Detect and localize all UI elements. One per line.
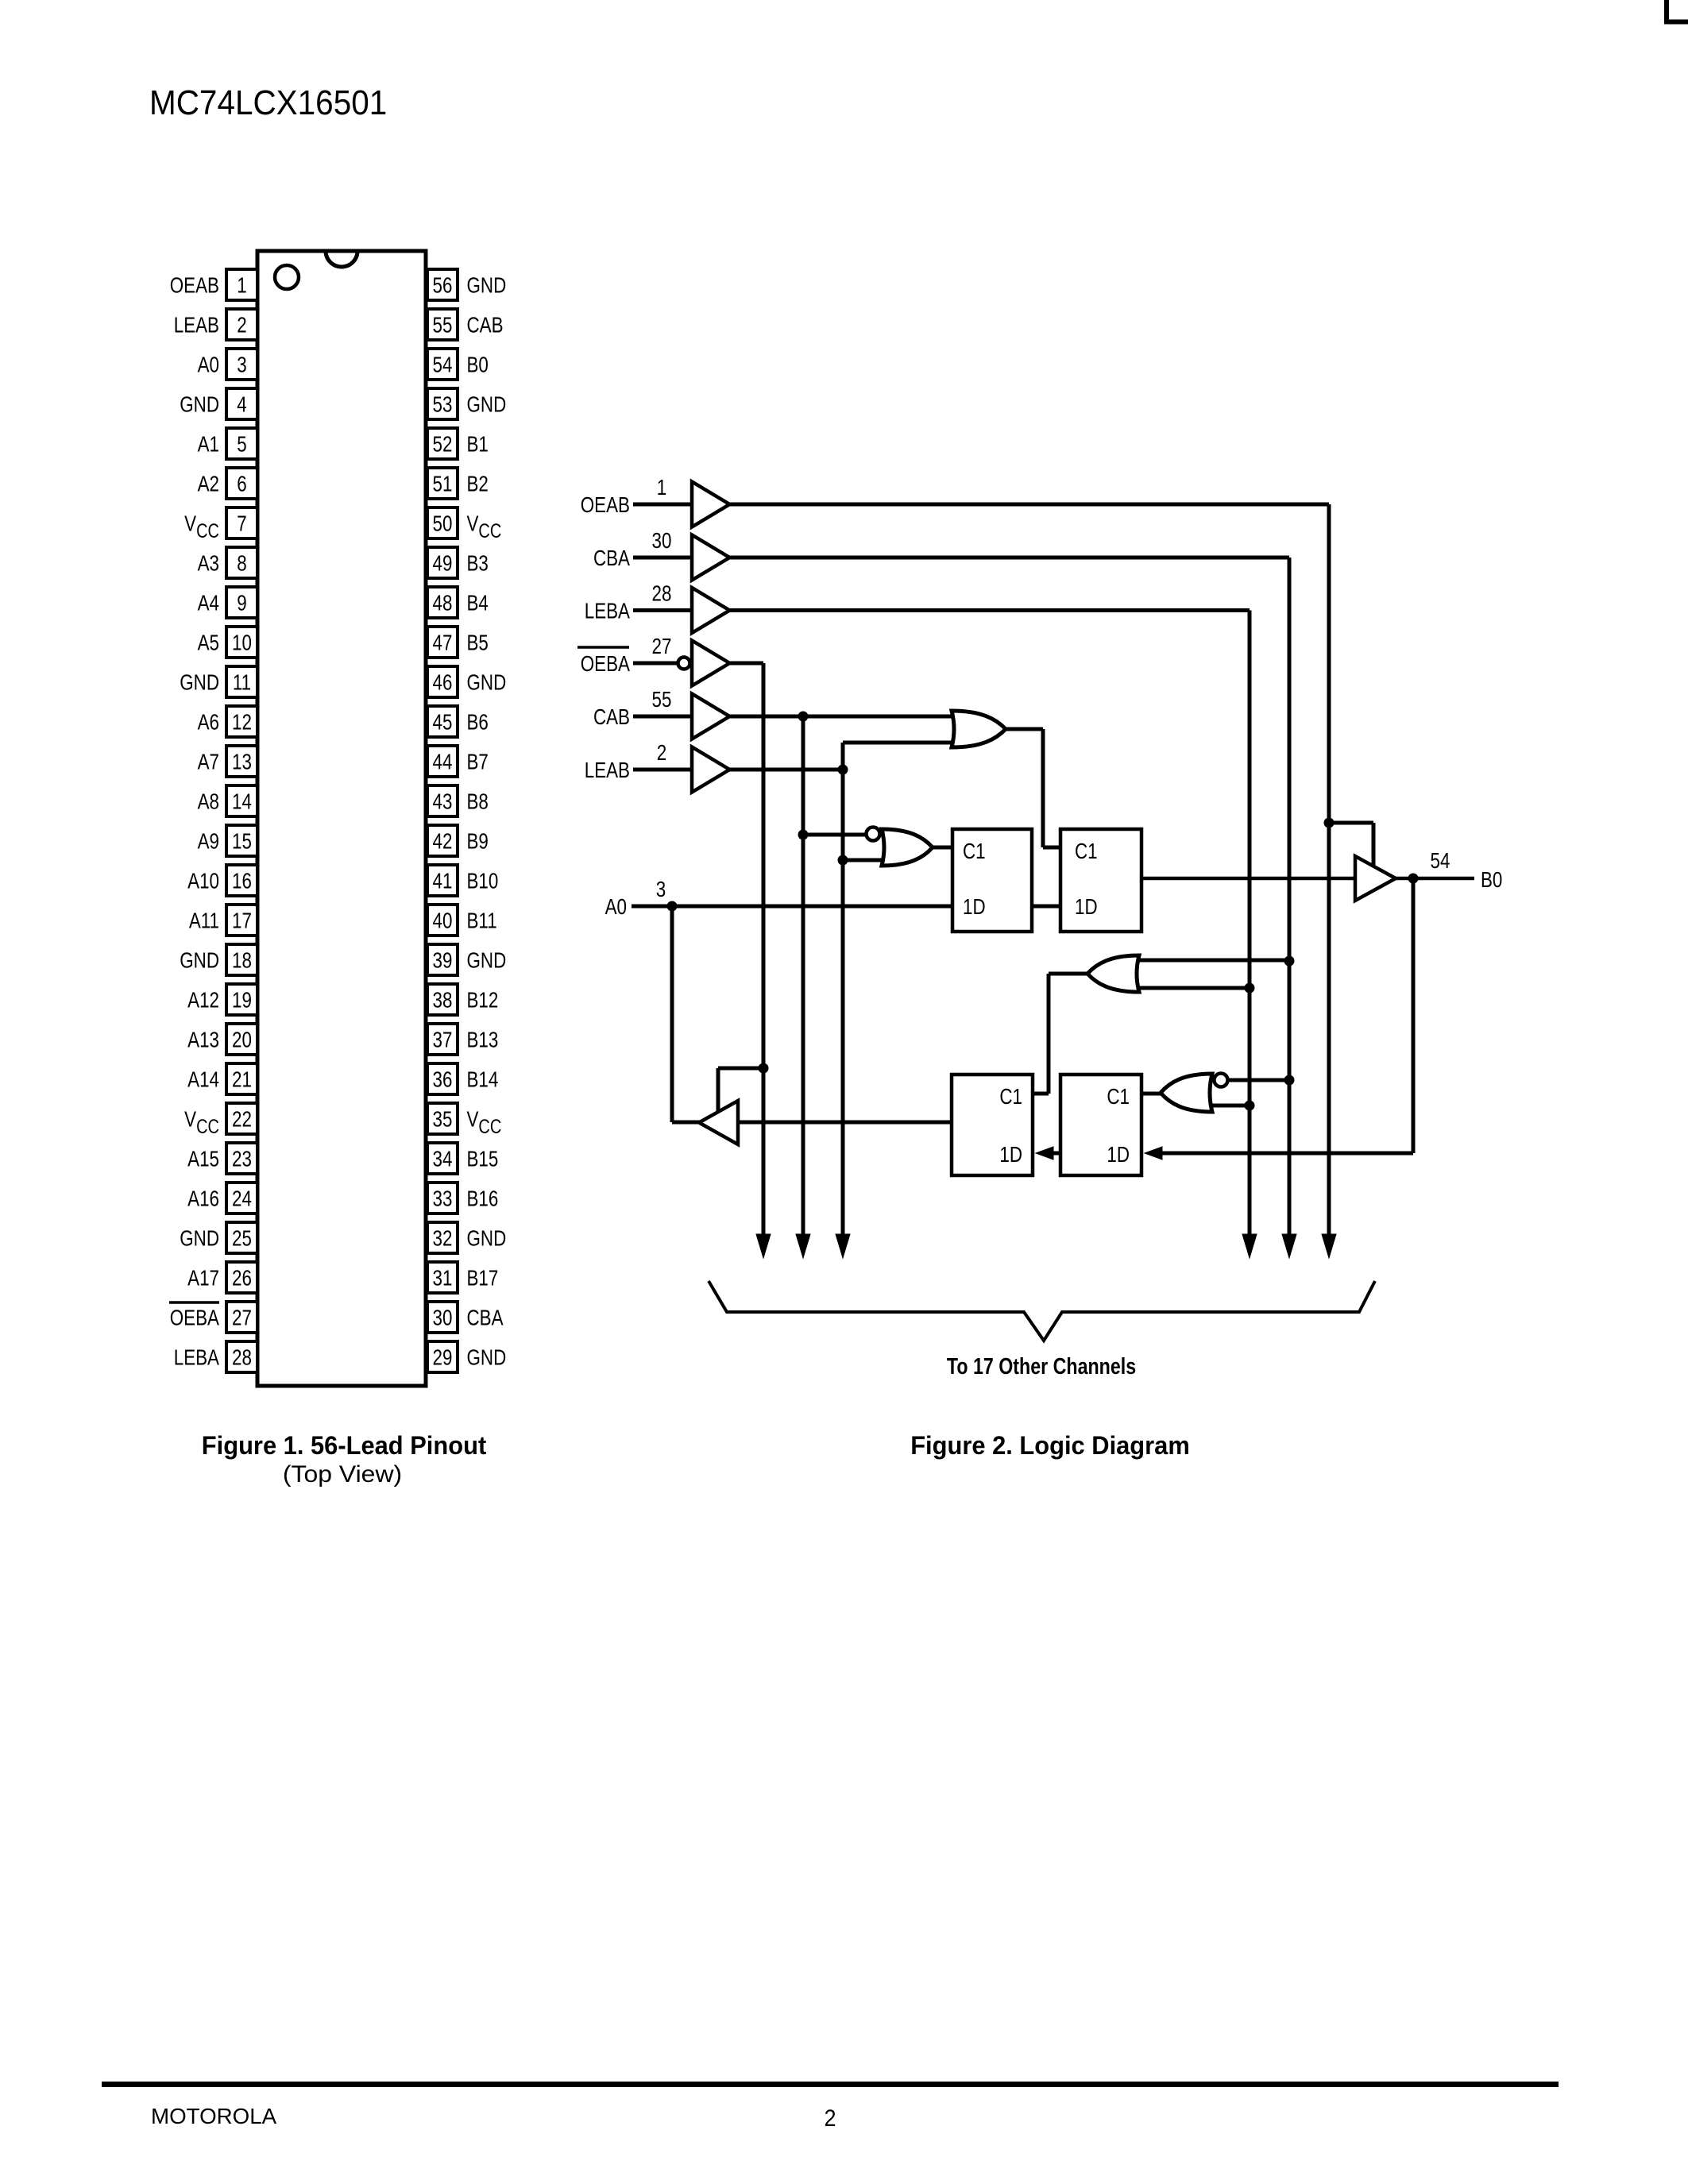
svg-text:B17: B17 [467, 1266, 499, 1291]
pin 34 label B15 [467, 1147, 499, 1171]
pin 23 number [232, 1147, 252, 1171]
pin 42 label B9 [467, 829, 489, 854]
pin number 28 [652, 581, 672, 606]
svg-text:LEAB: LEAB [585, 758, 630, 783]
pin 39 box [427, 944, 458, 975]
pin 21 label A14 [187, 1067, 219, 1092]
pin 30 box [427, 1302, 458, 1333]
pin 52 number [433, 432, 453, 457]
svg-text:38: 38 [433, 988, 453, 1013]
pin 8 box [226, 547, 257, 578]
pin 32 number [433, 1226, 453, 1251]
svg-text:B0: B0 [1481, 868, 1502, 893]
svg-text:8: 8 [237, 551, 246, 576]
junction LEAB output [838, 765, 848, 775]
footer MOTOROLA [151, 2104, 277, 2128]
buffer LEAB [692, 747, 730, 793]
svg-text:32: 32 [433, 1226, 453, 1251]
pin 56 box [427, 269, 458, 300]
pin 47 number [433, 631, 453, 655]
pin 15 label A9 [198, 829, 219, 854]
svg-text:30: 30 [433, 1306, 453, 1330]
pin 32 box [427, 1222, 458, 1253]
svg-text:9: 9 [237, 591, 246, 615]
pin number 2 [657, 741, 666, 766]
wire gate G3 output to latch L4 C1 [1141, 1092, 1161, 1096]
svg-text:21: 21 [232, 1067, 252, 1092]
svg-text:7: 7 [237, 511, 246, 536]
latch L3 C1 label [999, 1085, 1022, 1109]
latch L4 (B to A stage 2) [1060, 1075, 1141, 1175]
pin 39 label GND [467, 948, 507, 973]
svg-text:25: 25 [232, 1226, 252, 1251]
latch L1 1D label [963, 895, 986, 920]
svg-text:2: 2 [657, 741, 666, 766]
svg-text:23: 23 [232, 1147, 252, 1171]
pin 33 label B16 [467, 1187, 499, 1211]
latch L2 C1 label [1075, 839, 1098, 864]
package notch [326, 251, 357, 267]
pin number 30 [652, 529, 672, 554]
svg-text:3: 3 [656, 878, 666, 902]
pin 21 number [232, 1067, 252, 1092]
svg-text:GND: GND [467, 1345, 507, 1370]
pin 38 label B12 [467, 988, 499, 1013]
svg-text:1: 1 [237, 273, 246, 298]
svg-text:36: 36 [433, 1067, 453, 1092]
pin 24 number [232, 1187, 252, 1211]
net label CBA [593, 546, 630, 571]
pin 36 label B14 [467, 1067, 499, 1092]
svg-text:OEAB: OEAB [170, 273, 219, 298]
pin 5 label A1 [198, 432, 219, 457]
svg-text:LEAB: LEAB [174, 313, 219, 338]
svg-text:B0: B0 [467, 353, 489, 377]
svg-text:16: 16 [232, 869, 252, 893]
svg-text:GND: GND [467, 948, 507, 973]
svg-text:A3: A3 [198, 551, 219, 576]
svg-text:1D: 1D [1075, 895, 1098, 920]
pin 9 label A4 [198, 591, 219, 615]
pin 16 box [226, 865, 257, 896]
wire LEBA buffer output [730, 608, 1250, 612]
pin 31 label B17 [467, 1266, 499, 1291]
svg-text:(Top View): (Top View) [283, 1461, 402, 1488]
wire OEAB enable vertical [1327, 504, 1331, 1239]
junction B0 output [1408, 874, 1419, 884]
pin 14 label A8 [198, 789, 219, 814]
svg-text:4: 4 [237, 392, 246, 417]
caption (Top View) [283, 1461, 402, 1488]
pin 53 label GND [467, 392, 507, 417]
pin 7 label VCC [184, 511, 219, 542]
pin 31 number [433, 1266, 453, 1291]
pin 8 number [237, 551, 246, 576]
junction LEAB/XOR [838, 855, 848, 866]
latch L2 1D label [1075, 895, 1098, 920]
pin 14 number [232, 789, 252, 814]
junction LEBA/G2 [1245, 983, 1255, 994]
pin 33 number [433, 1187, 453, 1211]
svg-text:To 17 Other Channels: To 17 Other Channels [947, 1353, 1136, 1379]
arrowhead to other channels x=1011 [796, 1234, 810, 1258]
pin 25 number [232, 1226, 252, 1251]
junction CAB output [798, 712, 809, 722]
svg-text:B12: B12 [467, 988, 499, 1013]
wire LEAB branch to OR gate G1 [843, 741, 971, 745]
pin 22 number [232, 1107, 252, 1132]
buffer OEAB [692, 482, 730, 527]
wire OEBA vertical [762, 663, 766, 1239]
svg-text:GND: GND [180, 670, 219, 695]
pin 38 box [427, 984, 458, 1015]
pin 48 number [433, 591, 453, 615]
svg-text:B7: B7 [467, 750, 489, 774]
wire gate G3 bottom input from LEBA [1211, 1104, 1250, 1108]
pin 45 label B6 [467, 710, 489, 735]
pin 9 box [226, 587, 257, 618]
junction CAB/XOR [798, 830, 809, 840]
pin 44 box [427, 746, 458, 777]
pin 7 number [237, 511, 246, 536]
wire LEAB vertical [841, 743, 845, 1239]
svg-text:51: 51 [433, 472, 453, 496]
junction CBA/G3 [1284, 1075, 1295, 1086]
pin 36 number [433, 1067, 453, 1092]
wire CBA input [633, 556, 692, 560]
svg-text:C1: C1 [999, 1085, 1022, 1109]
svg-text:55: 55 [433, 313, 453, 338]
pin 46 box [427, 666, 458, 697]
pin 54 label B0 [467, 353, 489, 377]
wire CAB vertical [802, 716, 805, 1239]
pin 5 box [226, 428, 257, 459]
pin 42 number [433, 829, 453, 854]
latch L3 1D label [999, 1143, 1022, 1167]
pin 1 number [237, 273, 246, 298]
svg-text:B9: B9 [467, 829, 489, 854]
pin 33 box [427, 1183, 458, 1214]
pin 34 box [427, 1143, 458, 1174]
pin 17 box [226, 905, 257, 936]
wire CAB buffer output [730, 715, 971, 719]
pin 11 number [233, 670, 251, 695]
latch L4 C1 label [1107, 1085, 1130, 1109]
svg-text:B14: B14 [467, 1067, 499, 1092]
inverter bubble on gate G0 top input [867, 828, 880, 841]
pin 48 box [427, 587, 458, 618]
svg-text:48: 48 [433, 591, 453, 615]
svg-text:18: 18 [232, 948, 252, 973]
svg-text:17: 17 [232, 909, 252, 933]
pin 15 box [226, 825, 257, 856]
pin 54 number [433, 353, 453, 377]
svg-text:CAB: CAB [467, 313, 504, 338]
pin 20 label A13 [187, 1028, 219, 1052]
caption Figure 1. 56-Lead Pinout [202, 1430, 487, 1460]
pin 41 number [433, 869, 453, 893]
svg-text:GND: GND [180, 948, 219, 973]
svg-text:24: 24 [232, 1187, 252, 1211]
svg-text:2: 2 [237, 313, 246, 338]
arrowhead to other channels x=1623 [1282, 1234, 1296, 1258]
svg-text:1D: 1D [963, 895, 986, 920]
svg-text:A13: A13 [187, 1028, 219, 1052]
pin 26 box [226, 1262, 257, 1293]
pin 25 label GND [180, 1226, 219, 1251]
pin 37 label B13 [467, 1028, 499, 1052]
svg-text:20: 20 [232, 1028, 252, 1052]
svg-text:MC74LCX16501: MC74LCX16501 [149, 83, 387, 122]
svg-text:37: 37 [433, 1028, 453, 1052]
svg-text:A2: A2 [198, 472, 219, 496]
svg-text:A8: A8 [198, 789, 219, 814]
wire OEAB buffer output to enable column [730, 503, 1330, 507]
pin 50 number [433, 511, 453, 536]
pin number 3 [656, 878, 666, 902]
pin 56 label GND [467, 273, 507, 298]
pin 44 number [433, 750, 453, 774]
pin 7 box [226, 507, 257, 538]
svg-text:49: 49 [433, 551, 453, 576]
svg-text:A15: A15 [187, 1147, 219, 1171]
svg-text:A0: A0 [605, 895, 627, 920]
pin 12 label A6 [198, 710, 219, 735]
pin 50 box [427, 507, 458, 538]
wire A0 to latch 1D [632, 905, 952, 909]
svg-text:C1: C1 [1075, 839, 1098, 864]
pin 18 box [226, 944, 257, 975]
net label LEBA [585, 599, 630, 623]
svg-text:27: 27 [232, 1306, 252, 1330]
pin 28 number [232, 1345, 252, 1370]
pin 42 box [427, 825, 458, 856]
svg-text:CBA: CBA [467, 1306, 504, 1330]
pin 26 label A17 [187, 1266, 219, 1291]
net label CAB [593, 705, 630, 730]
svg-text:B10: B10 [467, 869, 499, 893]
svg-text:15: 15 [232, 829, 252, 854]
svg-text:A12: A12 [187, 988, 219, 1013]
latch L1 (A to B stage 1) [952, 829, 1032, 932]
pin 23 label A15 [187, 1147, 219, 1171]
svg-text:B15: B15 [467, 1147, 499, 1171]
pin 2 number [237, 313, 246, 338]
pin 41 box [427, 865, 458, 896]
svg-text:OEAB: OEAB [581, 493, 630, 518]
pin 35 label VCC [467, 1107, 502, 1137]
pin 35 number [433, 1107, 453, 1132]
pin 21 box [226, 1063, 257, 1094]
wire latch L4 to latch L3 1D [1053, 1152, 1060, 1156]
pin number 55 [652, 688, 672, 712]
pin 48 label B4 [467, 591, 489, 615]
pin 27 box [226, 1302, 257, 1333]
svg-text:50: 50 [433, 511, 453, 536]
pin 52 box [427, 428, 458, 459]
wire CBA vertical [1288, 558, 1292, 1239]
wire LEAB input [633, 768, 692, 772]
latch L2 (A to B stage 2) [1060, 829, 1141, 932]
pin 53 box [427, 388, 458, 419]
svg-text:29: 29 [433, 1345, 453, 1370]
svg-text:14: 14 [232, 789, 252, 814]
latch L3 (B to A stage 1) [952, 1075, 1033, 1175]
pin 45 number [433, 710, 453, 735]
svg-text:34: 34 [433, 1147, 453, 1171]
svg-text:Figure 1. 56-Lead Pinout: Figure 1. 56-Lead Pinout [202, 1430, 487, 1460]
svg-text:B2: B2 [467, 472, 489, 496]
pin 29 number [433, 1345, 453, 1370]
svg-text:41: 41 [433, 869, 453, 893]
pin 1 box [226, 269, 257, 300]
svg-text:44: 44 [433, 750, 453, 774]
pin 17 label A11 [189, 909, 219, 933]
svg-text:53: 53 [433, 392, 453, 417]
pin 37 box [427, 1024, 458, 1055]
pin 31 box [427, 1262, 458, 1293]
pin 25 box [226, 1222, 257, 1253]
pin 30 label CBA [467, 1306, 504, 1330]
label To 17 Other Channels [947, 1353, 1136, 1379]
wire OEAB enable branch to output buffer [1329, 821, 1373, 825]
wire feedback to latch L4 1D [1161, 1152, 1413, 1156]
inverter bubble on OEBA buffer input [678, 658, 690, 669]
svg-text:5: 5 [237, 432, 246, 457]
A-side output buffer (drives A0) [699, 1101, 738, 1144]
svg-text:B13: B13 [467, 1028, 499, 1052]
pin 2 label LEAB [174, 313, 219, 338]
footer rule [102, 2082, 1559, 2087]
junction LEBA/G3 [1245, 1101, 1255, 1111]
pin 4 box [226, 388, 257, 419]
pin 22 box [226, 1103, 257, 1134]
pin 3 number [237, 353, 246, 377]
wire OEBA input [633, 662, 678, 666]
svg-text:31: 31 [433, 1266, 453, 1291]
svg-text:10: 10 [232, 631, 252, 655]
svg-text:27: 27 [652, 635, 672, 659]
svg-text:GND: GND [180, 1226, 219, 1251]
wire latch L2 output to B0 buffer [1141, 877, 1355, 881]
pin 6 box [226, 468, 257, 499]
brace: to 17 other channels [709, 1281, 1375, 1341]
svg-text:A6: A6 [198, 710, 219, 735]
pin 15 number [232, 829, 252, 854]
wire CAB input [633, 715, 692, 719]
wire A0 vertical to B-side output buffer [670, 906, 674, 1122]
pin 10 number [232, 631, 252, 655]
svg-text:B5: B5 [467, 631, 489, 655]
buffer OEBA [692, 641, 730, 686]
svg-text:46: 46 [433, 670, 453, 695]
pin 20 number [232, 1028, 252, 1052]
OEBA overline [577, 646, 629, 649]
pin 29 box [427, 1341, 458, 1372]
pin 43 label B8 [467, 789, 489, 814]
pin number 27 [652, 635, 672, 659]
junction OEAB/enable [1324, 818, 1335, 828]
svg-text:45: 45 [433, 710, 453, 735]
pin 1 label OEAB [170, 273, 219, 298]
pin 38 number [433, 988, 453, 1013]
pin 6 label A2 [198, 472, 219, 496]
pin 4 label GND [180, 392, 219, 417]
wire CAB branch to XOR gate [803, 833, 870, 837]
pin 10 label A5 [198, 631, 219, 655]
svg-text:30: 30 [652, 529, 672, 554]
svg-text:B8: B8 [467, 789, 489, 814]
latch L4 1D label [1107, 1143, 1130, 1167]
svg-text:CBA: CBA [593, 546, 630, 571]
pin 40 number [433, 909, 453, 933]
svg-text:54: 54 [1431, 849, 1450, 874]
pin 14 box [226, 785, 257, 816]
page number 2 [824, 2105, 836, 2132]
pin 18 number [232, 948, 252, 973]
svg-text:C1: C1 [1107, 1085, 1130, 1109]
net label OEAB [581, 493, 630, 518]
OR gate G3 with inverted input (latch L4 clock) [1161, 1074, 1212, 1112]
pin 11 box [226, 666, 257, 697]
svg-text:GND: GND [467, 1226, 507, 1251]
svg-text:40: 40 [433, 909, 453, 933]
pin 41 label B10 [467, 869, 499, 893]
pin 30 number [433, 1306, 453, 1330]
svg-text:B3: B3 [467, 551, 489, 576]
svg-text:Figure 2. Logic Diagram: Figure 2. Logic Diagram [910, 1430, 1190, 1460]
svg-text:3: 3 [237, 353, 246, 377]
svg-text:B1: B1 [467, 432, 489, 457]
svg-text:OEBA: OEBA [581, 652, 630, 677]
pin 28 box [226, 1341, 257, 1372]
OR gate G2 (CBA+LEBA, latch L3 clock) [1087, 955, 1139, 992]
svg-text:42: 42 [433, 829, 453, 854]
pin 29 label GND [467, 1345, 507, 1370]
wire OEBA buffer output [730, 662, 764, 666]
pin 20 box [226, 1024, 257, 1055]
svg-text:26: 26 [232, 1266, 252, 1291]
net label LEAB [585, 758, 630, 783]
svg-text:GND: GND [467, 392, 507, 417]
svg-text:MOTOROLA: MOTOROLA [151, 2104, 277, 2128]
pin 19 number [232, 988, 252, 1013]
arrowhead to other channels x=961 [756, 1234, 771, 1258]
svg-text:52: 52 [433, 432, 453, 457]
pin 22 label VCC [184, 1107, 219, 1137]
junction CBA/G2 [1284, 956, 1295, 967]
pin 13 box [226, 746, 257, 777]
svg-text:LEBA: LEBA [174, 1345, 219, 1370]
svg-text:2: 2 [824, 2105, 836, 2132]
svg-text:LEBA: LEBA [585, 599, 630, 623]
svg-text:54: 54 [433, 353, 453, 377]
page corner mark [1667, 0, 1688, 22]
svg-text:19: 19 [232, 988, 252, 1013]
arrowhead to other channels x=1061 [836, 1234, 850, 1258]
pin 19 box [226, 984, 257, 1015]
pin 45 box [427, 706, 458, 737]
svg-text:1D: 1D [999, 1143, 1022, 1167]
B-side output buffer (drives B0) [1355, 856, 1396, 901]
wire B0 buffer output [1396, 877, 1474, 881]
wire LEAB branch to XOR gate [843, 859, 888, 862]
svg-text:B11: B11 [467, 909, 497, 933]
buffer CBA [692, 535, 730, 581]
svg-text:B6: B6 [467, 710, 489, 735]
svg-text:A7: A7 [198, 750, 219, 774]
pin 55 box [427, 309, 458, 340]
